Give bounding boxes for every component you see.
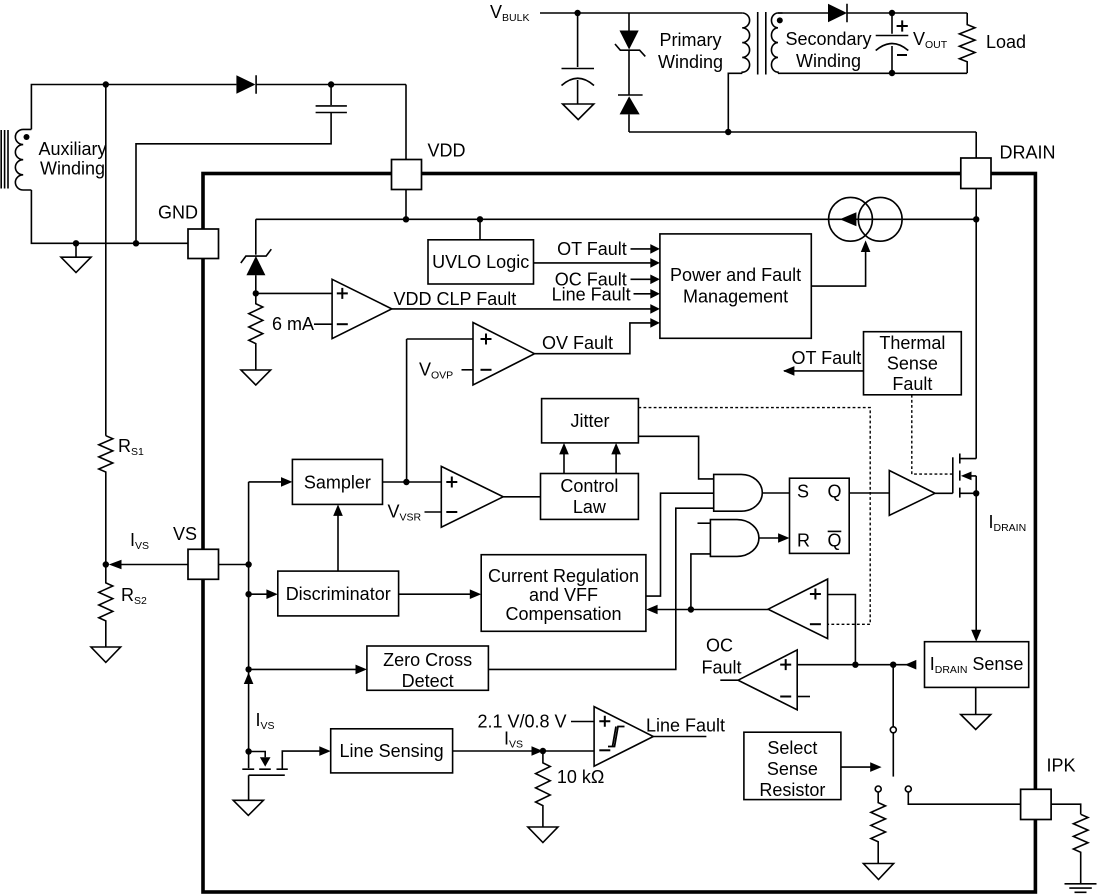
svg-text:Select: Select [767, 738, 817, 758]
svg-text:Control: Control [560, 476, 618, 496]
junction rail/VDD [403, 216, 409, 222]
junction switch node [890, 662, 896, 668]
wire 2.1V stub [571, 721, 594, 723]
svg-text:2.1 V/0.8 V: 2.1 V/0.8 V [477, 712, 566, 732]
wire power to current source [811, 247, 865, 287]
wire driver to gate [935, 492, 953, 494]
AND gate G1 [714, 474, 763, 511]
Sampler box [292, 459, 382, 504]
earth ground IPK [1065, 884, 1097, 893]
svg-text:Winding: Winding [658, 52, 723, 72]
wire switch to IPK [908, 792, 1020, 804]
auxiliary winding coil [15, 129, 31, 190]
wire Line fault [634, 293, 652, 295]
wire to DRAIN pin [629, 114, 976, 158]
resistor sense [871, 792, 886, 863]
op-amp U_VSR [441, 466, 503, 527]
svg-text:OT Fault: OT Fault [792, 348, 862, 368]
Control Law box [541, 474, 639, 520]
wire AND2 stub input [698, 522, 711, 524]
Select Sense Resistor box [744, 732, 841, 799]
junction ZCD input [245, 666, 251, 672]
junction CC out [688, 606, 694, 612]
dashed wire jitter to comparator [638, 408, 870, 625]
svg-text:Thermal: Thermal [879, 333, 945, 353]
arrow control to jitter 2 [615, 450, 617, 474]
svg-text:Zero Cross: Zero Cross [383, 650, 472, 670]
wire OC fault [631, 278, 652, 280]
junction 10k [540, 748, 546, 754]
minus mark [897, 54, 907, 56]
svg-text:DRAIN: DRAIN [1000, 143, 1056, 163]
resistor 10k [536, 751, 551, 827]
junction vdd cap [328, 81, 334, 87]
Power and Fault Management box [660, 234, 811, 338]
junction bulk cap [574, 10, 580, 16]
wire to comparator plus [256, 292, 332, 294]
junction aux gnd [73, 240, 79, 246]
arrow discriminator to sampler [337, 511, 339, 572]
svg-text:Q: Q [828, 531, 842, 551]
junction FET source [973, 490, 979, 496]
wire AND2 lower input [691, 554, 711, 610]
junction cap gnd [133, 240, 139, 246]
svg-text:Detect: Detect [402, 671, 454, 691]
svg-text:Current Regulation: Current Regulation [488, 566, 639, 586]
driver buffer U_DRV [889, 471, 935, 516]
junction sampler out [403, 479, 409, 485]
wire ZCD input [249, 668, 359, 670]
op-amp U_OVP [473, 323, 535, 386]
svg-text:Primary: Primary [660, 30, 722, 50]
junction aux top [103, 81, 109, 87]
svg-text:IPK: IPK [1047, 756, 1076, 776]
svg-text:Resistor: Resistor [759, 780, 825, 800]
pin IPK [1021, 789, 1052, 819]
svg-text:Line Fault: Line Fault [552, 284, 631, 304]
wire aux bottom [31, 190, 188, 243]
pin GND [188, 229, 219, 259]
wire sampler out [383, 481, 442, 483]
arrow I_VS right [532, 746, 543, 756]
Current Regulation and VFF Compensation box [481, 555, 646, 632]
svg-text:Secondary: Secondary [785, 29, 871, 49]
junction rail/DRAIN [973, 216, 979, 222]
arrow control to jitter 1 [563, 450, 565, 474]
op-amp U_OC [738, 650, 797, 710]
svg-text:Sense: Sense [887, 354, 938, 374]
arrow from idrain sense [905, 660, 916, 670]
svg-text:Sense: Sense [767, 759, 818, 779]
wire Q to driver [849, 492, 889, 494]
wire VDD pin drop [405, 190, 407, 220]
capacitor C_OUT [876, 13, 909, 73]
Zero Cross Detect box [367, 646, 489, 690]
diode D3 output rectifier [828, 4, 847, 22]
svg-text:Load: Load [986, 32, 1026, 52]
ground aux [75, 243, 77, 257]
svg-text:10 kΩ: 10 kΩ [557, 767, 604, 787]
wire IPK external [1051, 804, 1081, 814]
capacitor C_VDD [136, 85, 347, 244]
wire vsr stub [425, 511, 442, 513]
transistor Q1 power FET [952, 457, 954, 493]
ground 6mA [241, 370, 271, 385]
svg-text:Discriminator: Discriminator [286, 584, 391, 604]
secondary phase dot [777, 17, 783, 23]
Discriminator box [278, 571, 399, 616]
wire CC plus input [828, 595, 856, 665]
svg-text:OV Fault: OV Fault [542, 333, 613, 353]
svg-text:OT Fault: OT Fault [557, 239, 627, 259]
latch U_SR [790, 478, 850, 553]
Thermal Sense Fault box [864, 332, 962, 395]
resistor 6mA [249, 293, 263, 370]
svg-text:Management: Management [683, 287, 788, 307]
wire VS pin to divider [120, 564, 188, 566]
ground R_S2 [91, 647, 121, 662]
transistor Q2 line sense FET [248, 752, 250, 769]
ground 10k [528, 827, 558, 843]
wire I_DRAIN down [975, 493, 977, 631]
wire to VDD pin [405, 85, 407, 160]
aux phase dot [24, 134, 30, 140]
diode D2 [618, 94, 643, 96]
svg-text:OC: OC [706, 636, 733, 656]
wire OT fault [631, 248, 652, 250]
wire vsr out [503, 496, 540, 498]
wire discriminator out [399, 593, 473, 595]
wire jitter to AND1 [638, 436, 713, 479]
Jitter box [542, 399, 639, 443]
svg-text:Auxiliary: Auxiliary [38, 139, 106, 159]
svg-text:VDD CLP Fault: VDD CLP Fault [394, 289, 517, 309]
zener DZ internal [255, 219, 257, 254]
secondary winding coil [771, 13, 782, 73]
svg-text:R: R [797, 531, 810, 551]
op-amp U_CC regulation [768, 579, 828, 639]
wire aux top [31, 85, 236, 130]
wire sampler input [249, 481, 284, 483]
junction VS node [103, 561, 109, 567]
wire line sensing out [453, 750, 594, 752]
wire [628, 50, 630, 95]
svg-text:VS: VS [173, 524, 197, 544]
svg-text:Law: Law [573, 497, 607, 517]
resistor Load [959, 13, 975, 73]
wire DRAIN pin drop [975, 189, 977, 459]
junction output top [889, 10, 895, 16]
wire AND2 out to R [759, 537, 779, 539]
svg-text:S: S [797, 482, 809, 502]
svg-text:Line Sensing: Line Sensing [340, 741, 444, 761]
svg-text:Winding: Winding [796, 51, 861, 71]
transformer core [758, 12, 766, 75]
hysteresis mark [608, 727, 625, 747]
ground bulk [563, 104, 594, 120]
wire VS junction column [248, 482, 250, 752]
TVS zener D1 [628, 13, 630, 31]
wire divider [105, 85, 107, 436]
svg-text:Jitter: Jitter [570, 411, 609, 431]
switch SW1 [892, 665, 894, 727]
wire line fault out [653, 736, 706, 738]
primary winding coil [742, 13, 749, 73]
wire V_OVP stub [462, 369, 474, 371]
junction line sense [245, 748, 251, 754]
arrow I_VS up [244, 673, 254, 685]
UVLO Logic box [479, 219, 481, 240]
wire V_BULK rail [540, 12, 742, 14]
capacitor C_BULK [562, 13, 595, 104]
aux core [1, 130, 8, 189]
svg-text:6 mA: 6 mA [272, 314, 314, 334]
svg-text:Fault: Fault [701, 658, 741, 678]
wire secondary top [778, 12, 828, 14]
wire OC minus stub [797, 696, 810, 698]
junction VS pin node [245, 561, 251, 567]
ground sense resistor [863, 864, 893, 880]
wire ZCD out to AND1 [488, 508, 713, 669]
pin VS [188, 549, 219, 579]
junction discriminator input [245, 591, 251, 597]
svg-text:Line Fault: Line Fault [646, 716, 725, 736]
wire OC out stub [720, 679, 738, 681]
svg-text:Winding: Winding [40, 159, 105, 179]
arrow I_VS left [109, 560, 122, 570]
arrows into power box [650, 244, 660, 254]
wire OV fault out [535, 323, 652, 354]
svg-text:GND: GND [158, 203, 198, 223]
wire UVLO out [534, 262, 652, 264]
wire current reg to AND1 [646, 493, 714, 596]
diode D_AUX [236, 75, 255, 93]
wire VS pin to node [219, 564, 249, 566]
wire internal VDD rail [256, 218, 976, 220]
junction rail/UVLO [477, 216, 483, 222]
svg-text:Fault: Fault [892, 374, 932, 394]
wire secondary bottom [778, 72, 967, 74]
IC border [203, 174, 1035, 893]
I_DRAIN Sense box [925, 642, 1029, 688]
junction CC/OC [852, 662, 858, 668]
arrow select to switch [841, 766, 872, 768]
svg-text:Compensation: Compensation [505, 604, 621, 624]
op-amp U_LINE comparator [594, 707, 653, 767]
resistor IPK [1073, 814, 1088, 883]
svg-text:VDD: VDD [428, 141, 466, 161]
pin DRAIN [961, 158, 991, 189]
svg-text:Power and Fault: Power and Fault [670, 265, 801, 285]
current source I1 [829, 197, 873, 241]
wire OT fault from thermal [784, 370, 864, 372]
svg-text:and VFF: and VFF [529, 585, 598, 605]
wire primary bottom [728, 73, 742, 132]
wire OC plus row [797, 664, 915, 666]
ground idrain sense [975, 687, 977, 714]
svg-text:Q: Q [828, 482, 842, 502]
junction primary bottom [725, 129, 731, 135]
wire 6mA stub [314, 323, 332, 325]
ground line sense [233, 800, 263, 815]
svg-text:Sampler: Sampler [304, 473, 371, 493]
wire VDD CLP fault [392, 308, 652, 310]
junction output bottom [889, 70, 895, 76]
AND gate G2 [710, 520, 759, 557]
wire CC out to current reg [657, 609, 769, 611]
wire discriminator input [249, 593, 270, 595]
pin VDD [392, 160, 422, 190]
dashed wire thermal to FET [912, 395, 953, 474]
svg-text:UVLO Logic: UVLO Logic [432, 252, 529, 272]
plus mark [897, 20, 908, 31]
Line Sensing box [331, 729, 453, 773]
op-amp U_CLP [332, 279, 392, 338]
resistor R_S2 [99, 565, 113, 648]
wire AND1 out to S [762, 492, 789, 494]
junction zener/res [253, 290, 259, 296]
resistor R_S1 [99, 436, 113, 565]
wire OVP plus input [407, 339, 473, 482]
